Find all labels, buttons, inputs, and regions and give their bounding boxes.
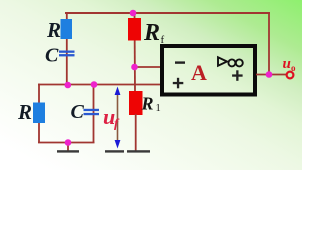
op-amp gain label A — [191, 60, 207, 85]
wire ground stem left — [67, 143, 69, 152]
capacitor C (parallel) — [84, 109, 100, 115]
label R_f — [143, 20, 165, 46]
svg-text:f: f — [114, 116, 120, 131]
ground (left) — [57, 150, 79, 152]
wire node line to + input — [38, 84, 160, 86]
label R_1 — [141, 94, 161, 115]
label C (parallel) — [71, 101, 85, 123]
svg-text:R: R — [143, 20, 160, 46]
svg-text:C: C — [45, 45, 59, 67]
op-amp output plus symbol — [232, 70, 243, 81]
resistor R_f — [128, 18, 141, 41]
op-amp minus input symbol — [175, 61, 185, 63]
svg-text:R: R — [17, 100, 32, 124]
svg-text:1: 1 — [156, 103, 161, 114]
op-amp infinity symbol — [228, 59, 242, 66]
op-amp U1 box — [162, 46, 255, 95]
node junction R_f top — [130, 10, 137, 17]
resistor R (parallel, bottom-left) — [33, 103, 45, 124]
terminal u_o ring — [287, 72, 294, 79]
node junction inverting input — [131, 64, 138, 71]
ground (under u_f arrow) — [105, 150, 124, 152]
label u_f — [103, 104, 120, 131]
op-amp plus input symbol — [173, 78, 184, 89]
wire parallel R branch vertical — [38, 84, 40, 143]
resistor R (series, top-left) — [61, 19, 73, 39]
arrow u_f voltage indicator — [115, 87, 121, 149]
resistor R_1 — [129, 91, 143, 115]
node junction parallel C top — [91, 81, 98, 88]
node junction series/parallel — [65, 82, 72, 89]
svg-text:o: o — [291, 63, 296, 73]
svg-text:R: R — [141, 94, 154, 114]
wire parallel C branch vertical — [93, 85, 95, 144]
label R (parallel) — [17, 100, 32, 124]
wire R_f / R_1 column vertical — [134, 12, 137, 92]
node junction output — [266, 71, 273, 78]
svg-text:A: A — [191, 60, 207, 85]
svg-text:C: C — [71, 101, 85, 123]
op-amp ideal symbol triangle — [218, 57, 227, 65]
label u_o — [283, 56, 297, 73]
svg-text:u: u — [283, 56, 291, 72]
ground (under R_1) — [127, 150, 150, 152]
wire feedback vertical — [268, 12, 270, 75]
wire top horizontal — [65, 12, 270, 14]
capacitor C (series) — [59, 51, 75, 57]
wire output — [256, 74, 286, 76]
wire inverting input — [135, 66, 161, 68]
label R (series) — [46, 18, 61, 42]
label C (series) — [45, 45, 59, 67]
node junction ground tap — [65, 139, 72, 146]
wire left series branch vertical — [66, 12, 68, 85]
wire bottom of parallel network — [38, 142, 95, 144]
wire R_1 to ground — [135, 114, 137, 151]
svg-text:R: R — [46, 18, 61, 42]
